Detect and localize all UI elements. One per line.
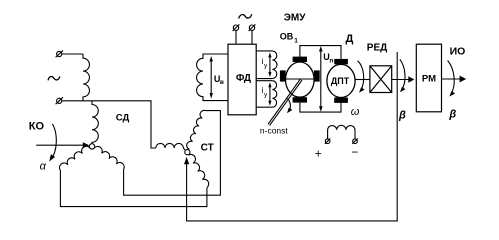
svg-text:ИО: ИО [450, 45, 466, 57]
svg-text:КО: КО [29, 121, 45, 133]
svg-text:β: β [398, 110, 406, 122]
arrow Un [319, 46, 323, 112]
svg-text:−: − [351, 145, 358, 159]
ЭМУ brush top [293, 57, 307, 62]
СД stator winding left [59, 146, 89, 170]
excitation terminal + [325, 139, 330, 144]
shaft РЕД to РМ arrow [392, 76, 415, 82]
wire (3-phase link middle) [124, 111, 221, 196]
svg-text:ОВ: ОВ [280, 32, 294, 42]
svg-text:α: α [40, 161, 47, 173]
svg-text:РМ: РМ [422, 73, 436, 84]
label Uв [214, 74, 224, 86]
wire (3-phase link bottom) [60, 170, 207, 206]
СТ stator winding upper [187, 110, 206, 149]
phase detector ФД box [228, 44, 256, 115]
svg-text:β: β [448, 109, 456, 121]
drive shaft n-const (double line) [268, 79, 302, 126]
svg-text:Д: Д [346, 33, 354, 45]
amplidyne ЭМУ machine [286, 62, 315, 97]
СД rotor winding [92, 101, 98, 144]
arrow iy upper [268, 52, 271, 77]
label Un [323, 52, 333, 64]
label iy upper [262, 56, 269, 70]
svg-text:СТ: СТ [201, 143, 214, 154]
input shaft arrow КО [36, 142, 89, 148]
terminal above ФД left [233, 24, 240, 44]
reference winding Uв [197, 54, 228, 101]
reducer РЕД box [370, 66, 392, 93]
winding L1 AC excitation [83, 54, 89, 101]
output shaft arrow ИО [442, 76, 467, 83]
node: СД rotor contact [89, 144, 94, 149]
ЭМУ brush axis line [286, 78, 314, 80]
СД stator winding right [94, 146, 124, 169]
rotation arc α [49, 124, 56, 162]
СТ stator winding lower [189, 154, 209, 187]
wire (X2 / СД top / link to СТ) [62, 101, 156, 148]
output winding iy upper [256, 51, 277, 79]
svg-text:СД: СД [116, 112, 130, 123]
working machine РМ box [416, 44, 441, 112]
svg-text:n-const: n-const [260, 126, 289, 136]
label ОВ1 [280, 32, 298, 45]
wire ЭМУ to ДПТ top [300, 46, 341, 59]
svg-text:n: n [329, 57, 333, 64]
ЭМУ brush bottom [293, 97, 307, 102]
rotation arrow n-const [287, 99, 292, 114]
node: СТ rotor contact [185, 150, 190, 155]
rotation arc β2 [448, 61, 455, 97]
AC symbol ~ [48, 76, 60, 80]
svg-text:РЕД: РЕД [367, 42, 387, 53]
svg-text:ДПТ: ДПТ [331, 76, 350, 86]
rotation arc ω [358, 61, 365, 93]
wire (X1 to winding) [62, 53, 83, 55]
ЭМУ brush left [280, 70, 286, 81]
label iy lower [262, 85, 269, 99]
svg-text:в: в [220, 79, 224, 86]
СТ stator winding left [156, 143, 185, 150]
excitation winding ДПТ [328, 125, 355, 138]
shaft ДПТ to РЕД [355, 79, 370, 81]
ДПТ brush bottom [334, 98, 348, 103]
terminal X2 (AC source bottom) [56, 97, 63, 104]
svg-text:+: + [315, 147, 322, 161]
wire ЭМУ to ДПТ bottom [300, 103, 341, 113]
ЭМУ brush right [314, 70, 320, 81]
motor ДПТ [327, 64, 355, 97]
arrow Uв [210, 56, 213, 99]
terminal X1 (AC source top) [56, 50, 63, 57]
rotation arc β1 [400, 59, 406, 92]
feedback shaft РЕД to СТ with arrow [184, 52, 397, 221]
svg-text:1: 1 [294, 37, 298, 44]
excitation terminal - [352, 139, 357, 144]
ДПТ brush top [334, 59, 348, 64]
arrow iy lower [268, 82, 271, 106]
svg-text:ЭМУ: ЭМУ [284, 12, 306, 23]
output winding iy lower [256, 81, 277, 108]
terminal above ФД right [249, 24, 256, 44]
svg-text:ФД: ФД [236, 73, 251, 84]
svg-text:ω: ω [351, 106, 360, 118]
AC symbol ~ above ФД [239, 14, 252, 18]
